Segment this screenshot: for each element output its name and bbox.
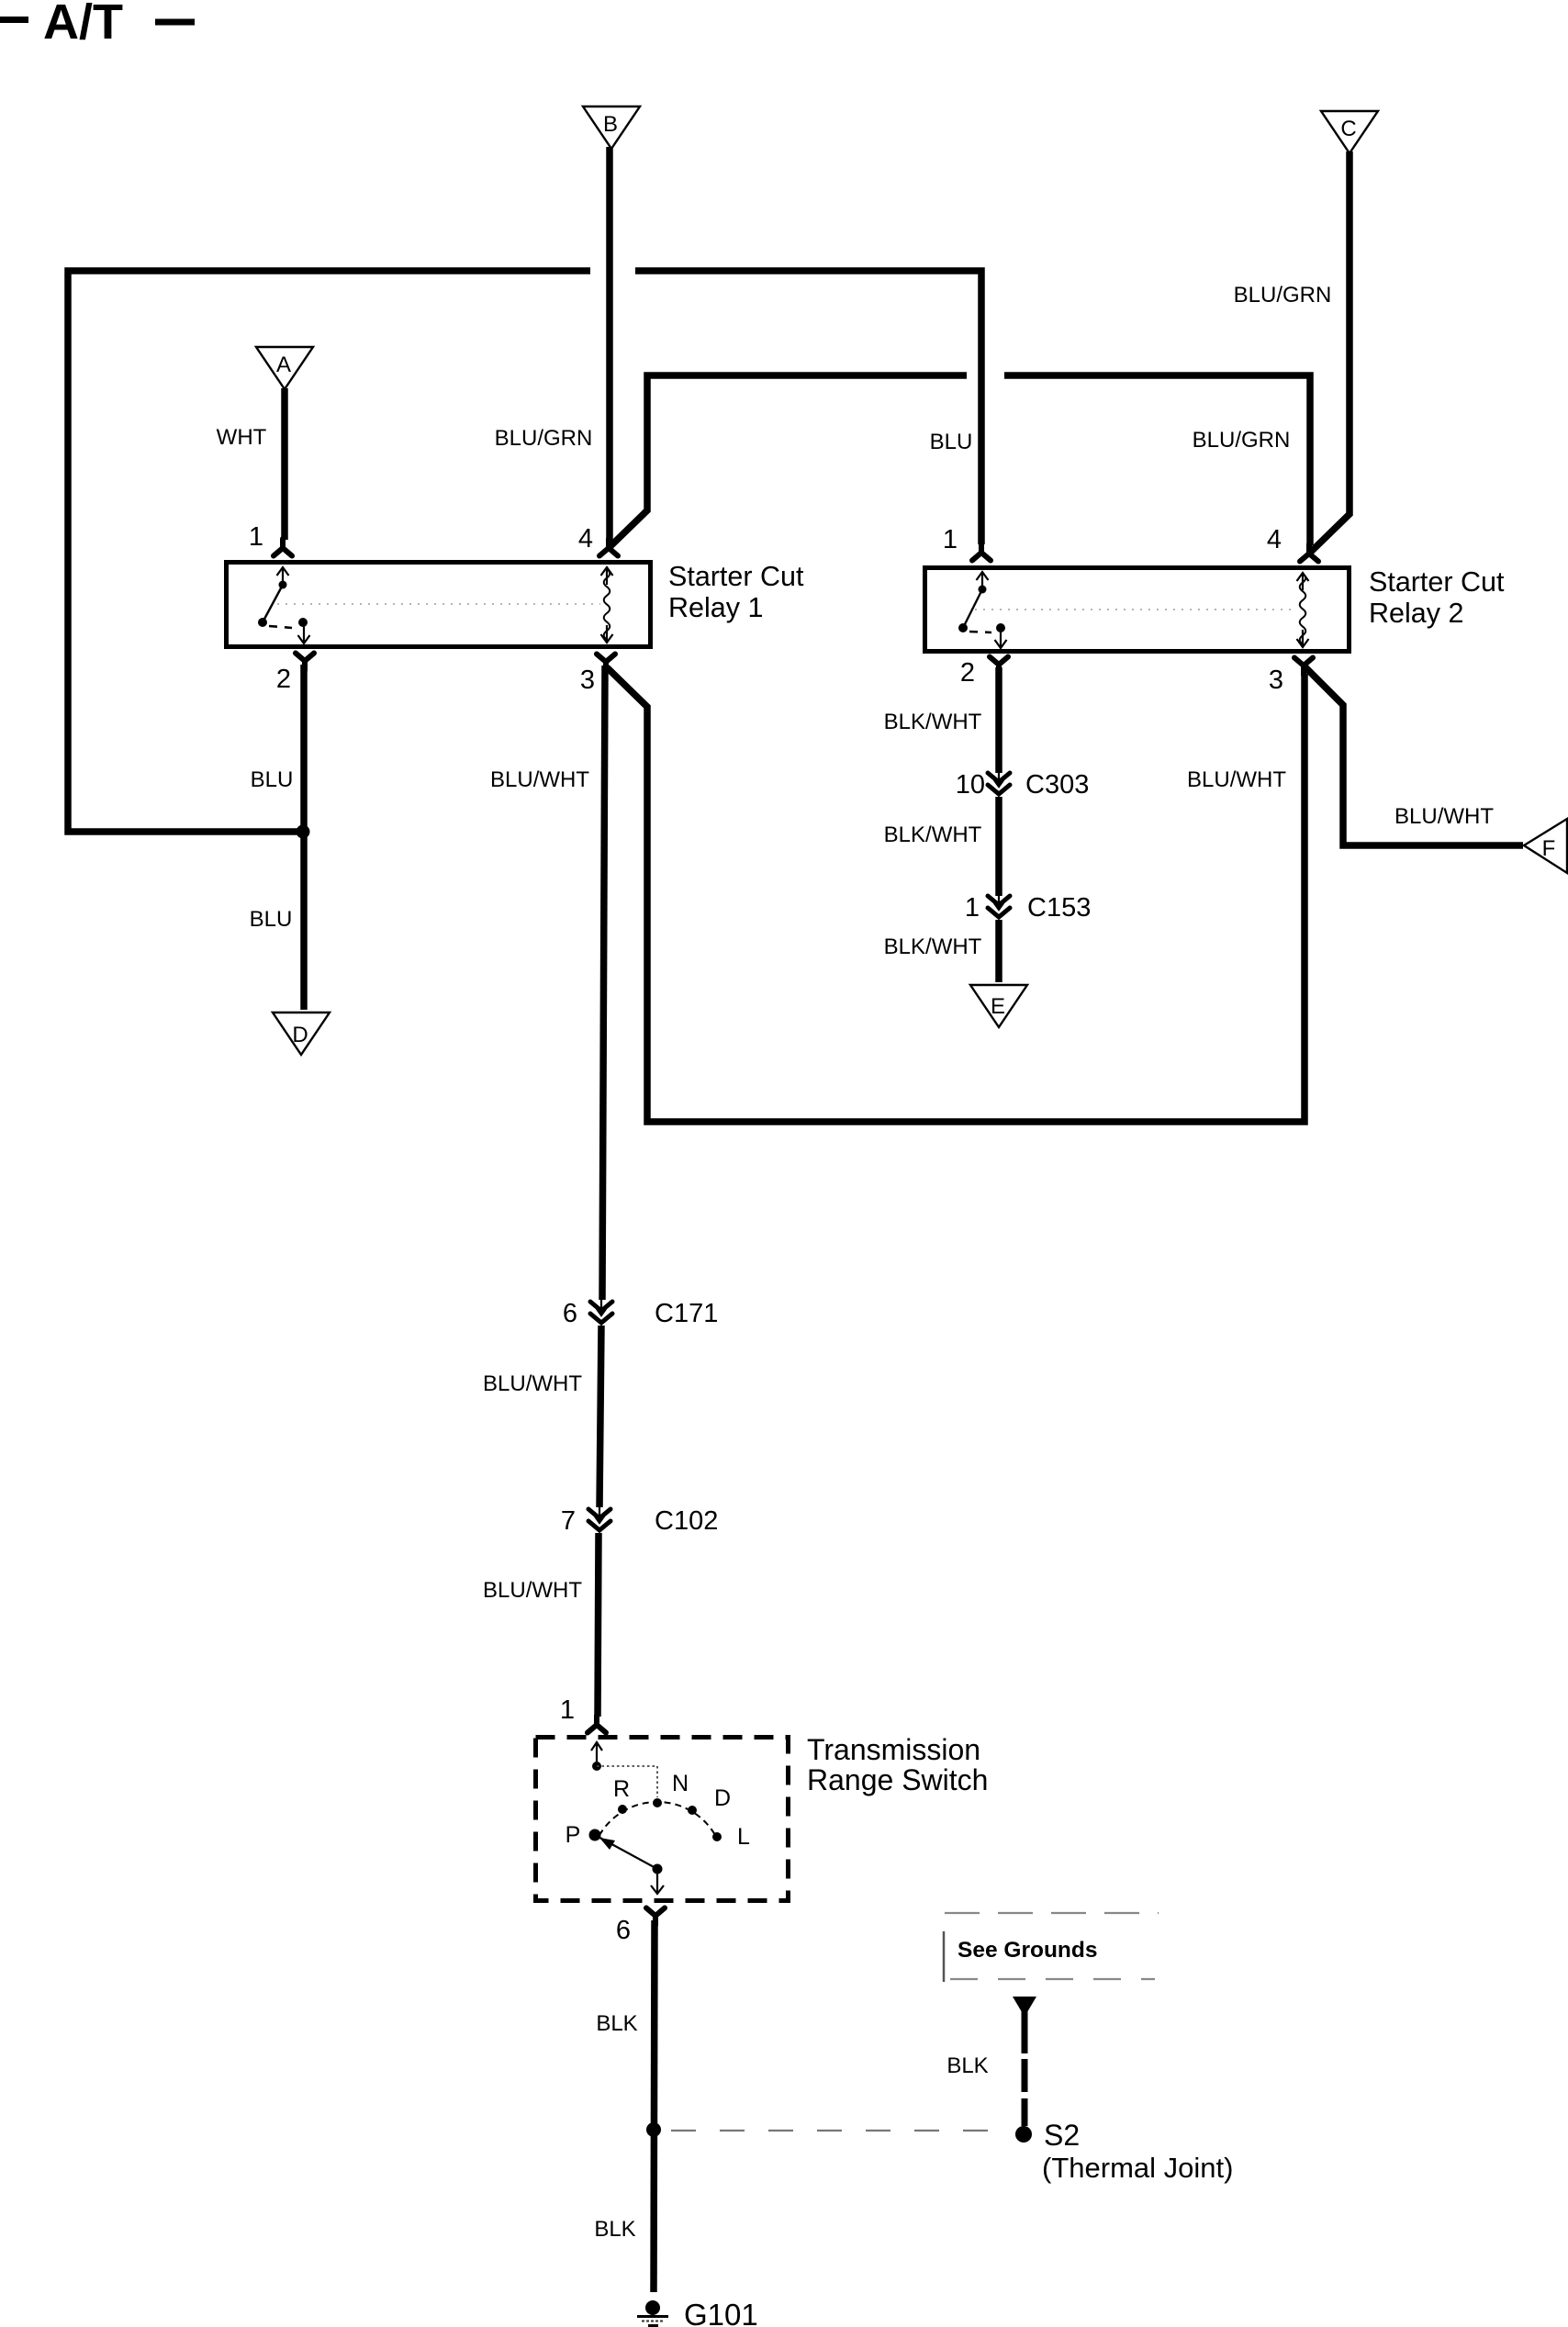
- svg-text:BLU/WHT: BLU/WHT: [483, 1371, 582, 1396]
- range switch pin1 contact arrow: [591, 1742, 602, 1766]
- connector C303 pin 10: [988, 766, 1010, 794]
- svg-text:BLK: BLK: [594, 2217, 635, 2242]
- relay1 switch contact arrow pin2: [298, 626, 310, 643]
- range switch dotted link to N: [597, 1766, 657, 1797]
- svg-text:P: P: [566, 1822, 581, 1848]
- svg-text:BLU/WHT: BLU/WHT: [1394, 804, 1494, 829]
- relay1 switch dashed link: [269, 626, 292, 628]
- wire BLK/WHT relay2 pin2 down: [995, 667, 1002, 773]
- svg-text:G101: G101: [684, 2298, 758, 2327]
- range switch contact P: [589, 1829, 601, 1841]
- wire BLU/WHT relay2 pin3 to F: [1304, 666, 1523, 845]
- svg-text:D: D: [292, 1023, 308, 1047]
- range switch contact R: [618, 1805, 627, 1814]
- svg-text:L: L: [737, 1824, 750, 1850]
- svg-text:BLK/WHT: BLK/WHT: [884, 822, 982, 847]
- range switch dashed selector arc: [599, 1802, 717, 1838]
- svg-text:BLK/WHT: BLK/WHT: [884, 710, 982, 734]
- range switch pin 1: [588, 1716, 606, 1733]
- svg-text:D: D: [714, 1785, 731, 1811]
- relay1 switch contact arrow pin1: [277, 567, 289, 585]
- svg-text:BLU: BLU: [250, 907, 293, 932]
- wire BLU relay1 pin2 down to junction and D: [300, 665, 308, 1010]
- wire BLU/GRN from B to relay1 pin4: [606, 147, 613, 541]
- wire BLK/WHT C153 to E: [995, 920, 1002, 982]
- see grounds reference box: [944, 1913, 1159, 1982]
- relay2 switch dashed link: [969, 632, 991, 632]
- junction dot on BLK wire: [646, 2122, 661, 2137]
- connector C171 pin 6: [590, 1295, 612, 1323]
- relay1 pin 3: [597, 654, 615, 672]
- svg-text:C303: C303: [1025, 770, 1089, 800]
- junction dot: [297, 825, 310, 839]
- title A/T: [0, 0, 195, 50]
- relay2 switch arm: [963, 589, 982, 628]
- relay1 pin 4: [599, 539, 618, 556]
- svg-text:A/T: A/T: [43, 0, 123, 50]
- svg-text:Relay 1: Relay 1: [668, 592, 763, 623]
- relay1 pin 1: [274, 539, 292, 556]
- relay2 box (Starter Cut Relay 2): [925, 568, 1350, 652]
- relay2 pin 2: [990, 657, 1008, 675]
- svg-text:C: C: [1340, 117, 1356, 141]
- wire BLU/WHT between C171 and C102: [599, 1326, 601, 1507]
- svg-text:6: 6: [563, 1299, 577, 1328]
- wire top horizontal left segment down to junction: [68, 271, 590, 832]
- transmission range switch dashed box: [536, 1738, 789, 1901]
- svg-text:4: 4: [1267, 525, 1282, 554]
- svg-text:BLU: BLU: [251, 767, 294, 792]
- wire BLK/WHT between C303 and C153: [995, 797, 1002, 896]
- relay2 switch contact arrow pin1: [977, 572, 989, 589]
- ground G101: [637, 2298, 758, 2327]
- svg-text:BLU/WHT: BLU/WHT: [483, 1578, 582, 1603]
- node C (triangle connector C): [1321, 111, 1378, 153]
- connector C153 pin 1: [988, 889, 1010, 917]
- range switch contact N: [653, 1798, 662, 1807]
- svg-text:BLK/WHT: BLK/WHT: [884, 934, 982, 959]
- svg-text:BLU: BLU: [930, 430, 973, 454]
- node B (triangle connector B): [583, 106, 640, 149]
- svg-text:B: B: [603, 112, 618, 137]
- svg-text:Relay 2: Relay 2: [1369, 598, 1463, 629]
- wire BLK dashed to see grounds with arrow: [946, 1997, 1036, 2126]
- svg-text:BLU/WHT: BLU/WHT: [490, 767, 589, 792]
- svg-text:F: F: [1542, 836, 1556, 861]
- svg-text:WHT: WHT: [217, 425, 267, 450]
- svg-text:BLU/GRN: BLU/GRN: [495, 426, 593, 451]
- svg-text:N: N: [672, 1771, 689, 1796]
- svg-text:A: A: [276, 352, 291, 377]
- wire WHT from A to relay1 pin1: [281, 388, 288, 540]
- svg-text:1: 1: [943, 525, 958, 554]
- wire BLU/GRN horizontal right part to relay2 pin4: [1004, 375, 1310, 545]
- relay2 pin 3: [1294, 658, 1313, 676]
- node F (triangle connector F): [1524, 819, 1567, 873]
- relay2 switch contact arrow pin2: [995, 631, 1007, 648]
- dashed link wire to S2: [671, 2130, 1004, 2131]
- svg-text:4: 4: [578, 524, 593, 554]
- relay1 switch arm: [263, 585, 283, 622]
- relay1 internal dotted link: [277, 603, 600, 605]
- relay1 coil: [604, 569, 610, 640]
- svg-text:BLU/GRN: BLU/GRN: [1193, 428, 1291, 453]
- svg-text:C102: C102: [655, 1506, 718, 1536]
- svg-text:BLK: BLK: [596, 2011, 637, 2036]
- range switch pin6 contact arrow: [651, 1869, 664, 1894]
- svg-text:Range Switch: Range Switch: [807, 1763, 988, 1796]
- connector C102 pin 7: [588, 1503, 610, 1530]
- svg-text:6: 6: [616, 1916, 631, 1945]
- range switch pin 6: [646, 1908, 665, 1926]
- svg-text:E: E: [991, 994, 1005, 1019]
- wire BLU/GRN from C to relay2 pin4: [1311, 151, 1350, 552]
- svg-text:1: 1: [965, 893, 980, 923]
- node E (triangle connector E): [970, 985, 1027, 1027]
- node A (triangle connector A): [256, 347, 313, 389]
- svg-text:BLK: BLK: [946, 2053, 988, 2078]
- svg-text:S2: S2: [1044, 2119, 1080, 2152]
- svg-text:1: 1: [560, 1695, 575, 1725]
- wire loop relay1 pin3 to relay2 pin3: [607, 667, 1305, 1122]
- svg-text:2: 2: [960, 658, 975, 688]
- svg-text:C153: C153: [1027, 893, 1091, 923]
- svg-text:BLU/GRN: BLU/GRN: [1234, 283, 1332, 308]
- relay2 pin 1: [972, 543, 991, 561]
- relay2 internal dotted link: [975, 609, 1296, 610]
- range switch wiper arm: [595, 1835, 657, 1869]
- wire BLU/WHT relay1 pin3 main run down: [602, 666, 605, 1300]
- range switch contact D: [688, 1806, 697, 1815]
- node D (triangle connector D): [273, 1012, 330, 1055]
- svg-text:Transmission: Transmission: [807, 1733, 980, 1766]
- wire BLU/GRN horizontal (relay1 pin4 to relay2 pin4) left part: [610, 375, 967, 546]
- wire top horizontal right segment to relay2 pin1: [635, 271, 981, 544]
- svg-text:7: 7: [561, 1506, 576, 1536]
- svg-text:1: 1: [249, 522, 263, 552]
- svg-text:10: 10: [956, 770, 985, 800]
- relay1 pin 2: [296, 654, 314, 671]
- svg-text:3: 3: [1269, 666, 1283, 695]
- svg-text:Starter Cut: Starter Cut: [1369, 566, 1505, 598]
- svg-text:3: 3: [580, 666, 595, 695]
- relay2 pin 4: [1300, 544, 1318, 562]
- svg-text:R: R: [613, 1776, 630, 1802]
- svg-text:C171: C171: [655, 1299, 718, 1328]
- wire BLK range switch pin6 to G101: [654, 1920, 655, 2292]
- relay1 box (Starter Cut Relay 1): [227, 563, 651, 647]
- svg-text:Starter Cut: Starter Cut: [668, 561, 804, 592]
- wire BLU/WHT between C102 and range switch: [598, 1533, 599, 1717]
- svg-text:See Grounds: See Grounds: [958, 1938, 1097, 1963]
- svg-text:BLU/WHT: BLU/WHT: [1187, 767, 1286, 792]
- splice S2 dot: [1015, 2126, 1032, 2142]
- range switch contact L: [712, 1832, 722, 1841]
- svg-text:(Thermal Joint): (Thermal Joint): [1042, 2152, 1233, 2184]
- relay2 coil: [1300, 574, 1306, 644]
- svg-text:2: 2: [276, 665, 291, 694]
